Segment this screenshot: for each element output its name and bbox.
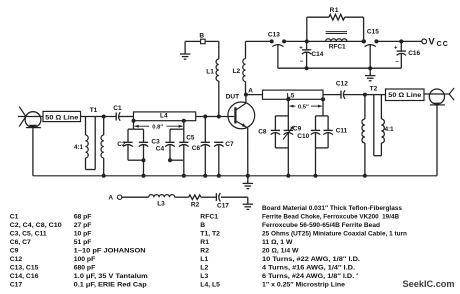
svg-text:RFC1: RFC1 (200, 213, 218, 220)
svg-text:C17: C17 (10, 282, 23, 289)
svg-text:SeekIC.com: SeekIC.com (403, 279, 455, 289)
svg-text:6 Turns, #24 AWG, 1/8′′ I.D. ′: 6 Turns, #24 AWG, 1/8′′ I.D. ′ (262, 273, 358, 280)
svg-text:25 Ohms (UT25) Miniature Coaxi: 25 Ohms (UT25) Miniature Coaxial Cable, … (262, 230, 407, 237)
svg-text:20 Ω, 1/4 W: 20 Ω, 1/4 W (262, 247, 299, 254)
svg-text:CC: CC (437, 41, 449, 48)
svg-text:C1: C1 (10, 213, 19, 220)
svg-text:Board Material 0.031′′ Thick T: Board Material 0.031′′ Thick Teflon-Fibe… (262, 205, 402, 212)
svg-text:C16: C16 (408, 50, 420, 57)
svg-text:4:1: 4:1 (74, 144, 84, 151)
svg-text:11 Ω, 1 W: 11 Ω, 1 W (262, 239, 293, 246)
svg-text:+: + (394, 46, 398, 52)
svg-text:Ferroxcube 56-590-65/4B Ferrit: Ferroxcube 56-590-65/4B Ferrite Bead (262, 222, 380, 229)
svg-text:C6: C6 (192, 145, 201, 152)
svg-text:L3: L3 (157, 201, 165, 208)
svg-text:50 Ω Line: 50 Ω Line (45, 114, 79, 121)
svg-text:C5: C5 (186, 134, 195, 141)
svg-text:B: B (200, 222, 205, 229)
svg-text:B: B (199, 32, 204, 39)
svg-text:C9: C9 (10, 247, 19, 254)
svg-text:C1: C1 (113, 105, 122, 112)
svg-text:RFC1: RFC1 (329, 43, 346, 50)
svg-text:R2: R2 (200, 247, 209, 254)
svg-text:C8: C8 (258, 128, 267, 135)
svg-text:4:1: 4:1 (385, 126, 395, 133)
svg-text:C13, C15: C13, C15 (10, 265, 39, 272)
svg-text:C17: C17 (217, 202, 229, 209)
svg-text:L1: L1 (206, 69, 214, 76)
svg-text:L3: L3 (200, 273, 208, 280)
svg-text:C6, C7: C6, C7 (10, 239, 31, 246)
svg-text:A: A (108, 195, 113, 202)
svg-text:Ferrite Bead Choke, Ferroxcube: Ferrite Bead Choke, Ferroxcube VK200 19/… (262, 213, 399, 220)
svg-text:1′′ x 0.25′′ Microstrip Line: 1′′ x 0.25′′ Microstrip Line (262, 282, 345, 289)
svg-text:R1: R1 (200, 239, 209, 246)
svg-text:C12: C12 (336, 80, 348, 87)
svg-text:680 pF: 680 pF (74, 265, 96, 272)
svg-text:51 pF: 51 pF (74, 239, 92, 246)
svg-text:C3: C3 (151, 138, 160, 145)
svg-text:−: − (300, 59, 304, 65)
svg-text:68 pF: 68 pF (74, 213, 92, 220)
svg-text:C14, C16: C14, C16 (10, 273, 39, 280)
svg-text:C15: C15 (367, 29, 379, 36)
svg-text:27 pF: 27 pF (74, 222, 92, 229)
svg-text:C3, C5, C11: C3, C5, C11 (10, 230, 47, 237)
svg-text:+: + (299, 45, 303, 51)
svg-text:V: V (428, 37, 435, 48)
svg-text:1–10 pF JOHANSON: 1–10 pF JOHANSON (74, 247, 146, 254)
svg-text:10 pF: 10 pF (74, 230, 92, 237)
svg-text:1.0 μF, 35 V Tantalum: 1.0 μF, 35 V Tantalum (74, 273, 148, 280)
svg-text:T2: T2 (370, 85, 378, 92)
svg-text:L4, L5: L4, L5 (200, 282, 220, 289)
svg-text:DUT: DUT (226, 94, 239, 101)
svg-text:T1, T2: T1, T2 (200, 230, 220, 237)
svg-text:0.1 μF, ERIE Red Cap: 0.1 μF, ERIE Red Cap (74, 282, 147, 289)
svg-text:R2: R2 (191, 201, 200, 208)
svg-text:L2: L2 (233, 68, 241, 75)
svg-text:L1: L1 (200, 256, 208, 263)
svg-text:C12: C12 (10, 256, 23, 263)
svg-text:C2: C2 (117, 141, 126, 148)
svg-text:C10: C10 (297, 133, 309, 140)
svg-text:R1: R1 (330, 7, 340, 14)
svg-text:L2: L2 (200, 265, 208, 272)
svg-text:−: − (395, 59, 399, 65)
svg-text:4 Turns, #16 AWG, 1/4′′ I.D.: 4 Turns, #16 AWG, 1/4′′ I.D. (262, 265, 355, 272)
svg-text:100 pF: 100 pF (74, 256, 96, 263)
svg-text:A: A (248, 87, 253, 94)
svg-text:50 Ω Line: 50 Ω Line (388, 92, 422, 99)
svg-text:10 Turns, #22 AWG, 1/8′′ I.D.: 10 Turns, #22 AWG, 1/8′′ I.D. (262, 256, 360, 263)
svg-text:C2, C4, C8, C10: C2, C4, C8, C10 (10, 222, 62, 229)
svg-text:L4: L4 (160, 112, 168, 119)
svg-text:C9: C9 (293, 126, 302, 133)
svg-text:T1: T1 (90, 107, 98, 114)
svg-text:0.8′′: 0.8′′ (152, 125, 163, 131)
svg-text:C14: C14 (311, 51, 323, 58)
svg-text:C7: C7 (225, 141, 234, 148)
svg-text:C11: C11 (336, 128, 348, 135)
svg-text:0.5′′: 0.5′′ (298, 104, 309, 110)
svg-text:C13: C13 (268, 31, 280, 38)
svg-text:C4: C4 (156, 146, 165, 153)
